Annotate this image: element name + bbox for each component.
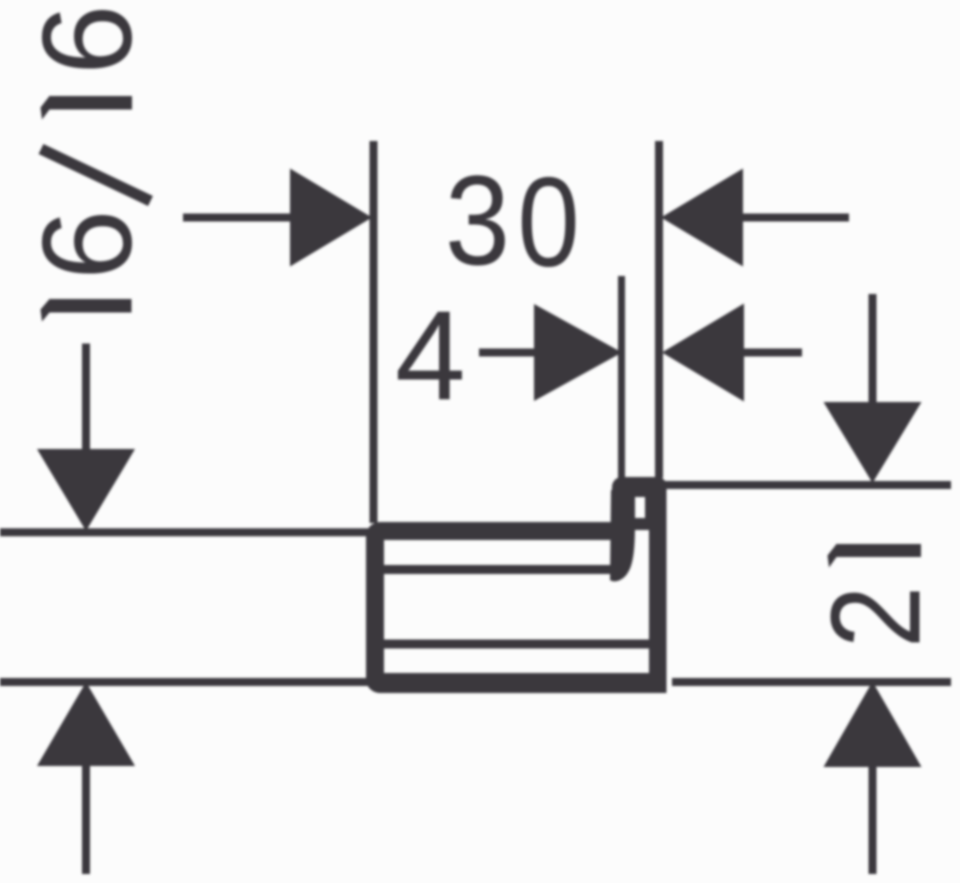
dim 30 left arrow tail <box>183 214 293 222</box>
profile: knob top cap <box>612 477 657 497</box>
dim 16/16 upper arrow tail <box>82 344 90 451</box>
extension line at x=621.5 (left of 4) <box>618 276 625 478</box>
dim 4 left arrowhead <box>534 304 622 401</box>
svg-text:6: 6 <box>16 209 158 280</box>
profile: inner bottom line <box>384 640 650 649</box>
horizontal dimension line top-left (y=532) <box>0 528 370 536</box>
profile: right wall <box>649 477 667 693</box>
extension line at x=659 (right of 30 / 4) <box>655 141 663 478</box>
dim 21 lower arrowhead (up) <box>824 682 922 768</box>
horizontal dimension line right-top (y=485) <box>665 481 951 489</box>
dim 4 right arrowhead <box>662 304 744 402</box>
svg-text:2: 2 <box>806 586 947 648</box>
extension line at x=373.5 (left of 30) <box>370 141 378 523</box>
dim 21 lower arrow tail <box>869 765 877 874</box>
dim 16/16 lower arrow tail <box>82 764 90 874</box>
svg-text:0: 0 <box>518 152 580 293</box>
dim 21 upper arrow tail <box>869 294 877 404</box>
profile: left wall <box>366 530 384 693</box>
dim 16/16 upper arrowhead (down) <box>37 449 135 531</box>
dim 21 upper arrowhead (down) <box>824 402 922 483</box>
dim 30 right arrowhead <box>661 169 743 267</box>
dim 4 right arrow tail <box>742 349 802 357</box>
horizontal dimension line bottom-left (y=682) <box>0 678 371 686</box>
dim 16/16 lower arrowhead (up) <box>37 682 135 766</box>
profile: bottom bar with rounded outer corners <box>366 673 667 693</box>
dimension label 16/16 (rotated) <box>16 4 158 321</box>
svg-text:3: 3 <box>445 150 510 292</box>
dim 30 left arrowhead <box>290 169 372 267</box>
profile: bridge below glass slot <box>612 518 655 530</box>
profile: knob right part beside slot <box>645 477 655 530</box>
svg-text:6: 6 <box>16 4 158 75</box>
dim 4 left arrow tail <box>479 349 536 357</box>
profile: top bar with rounded top-left outer corner <box>366 522 630 540</box>
svg-text:4: 4 <box>395 285 466 427</box>
profile: inner lip line <box>384 565 612 574</box>
horizontal dimension line bottom-right (y=682) <box>672 678 951 686</box>
profile: knob left finger with curved tip <box>610 490 635 581</box>
dim 30 right arrow tail <box>741 214 849 222</box>
